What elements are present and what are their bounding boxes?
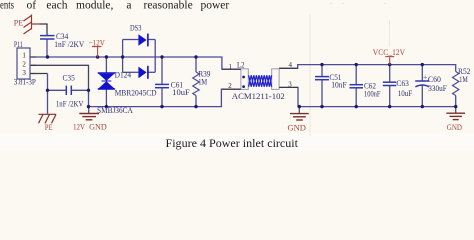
svg-text:PE: PE [14,18,24,27]
svg-text:1: 1 [22,52,26,60]
svg-text:100nF: 100nF [364,90,381,99]
svg-text:.: . [342,0,344,6]
svg-text:4: 4 [289,61,293,69]
svg-text:12V: 12V [73,123,85,132]
svg-text:module,: module, [76,0,113,12]
svg-text:.: . [330,0,332,6]
svg-text:−12V: −12V [89,38,105,47]
svg-text:a: a [126,0,131,12]
svg-text:Figure 4 Power inlet circuit: Figure 4 Power inlet circuit [166,136,299,150]
svg-text:DS3: DS3 [130,24,141,33]
svg-text:1M: 1M [459,75,468,84]
svg-text:GND: GND [447,123,462,132]
svg-text:reasonable: reasonable [144,0,193,12]
svg-text:SMBJ36CA: SMBJ36CA [97,106,133,115]
svg-text:ents: ents [0,0,14,12]
svg-text:2: 2 [22,60,26,68]
svg-text:PE: PE [45,123,53,132]
svg-text:330uF: 330uF [428,84,447,93]
svg-text:GND: GND [89,123,107,132]
svg-text:10uF: 10uF [172,88,190,97]
svg-text:VCC_12V: VCC_12V [373,48,406,57]
svg-text:1nF /2KV: 1nF /2KV [56,99,84,108]
svg-text:1: 1 [229,63,233,71]
svg-text:C63: C63 [396,79,409,88]
svg-text:L2: L2 [237,61,245,70]
svg-text:1nF /2KV: 1nF /2KV [54,40,84,49]
svg-text:power: power [201,0,230,12]
svg-text:3.81-3P: 3.81-3P [14,78,36,87]
svg-text:10nF: 10nF [331,80,347,89]
svg-text:.: . [384,0,386,6]
svg-text:GND: GND [288,123,307,132]
svg-text:+: + [423,72,427,81]
svg-text:each: each [46,0,67,12]
svg-text:of: of [27,0,37,12]
svg-text:1M: 1M [198,78,207,87]
svg-text:3: 3 [22,69,26,77]
svg-text:10uF: 10uF [398,89,413,98]
svg-text:D124: D124 [115,71,132,80]
svg-text:2: 2 [228,82,232,90]
svg-text:MBR2045CD: MBR2045CD [115,89,157,98]
svg-text:ACM1211-102: ACM1211-102 [232,92,285,101]
svg-text:3: 3 [288,81,292,89]
svg-text:P11: P11 [14,40,23,49]
svg-text:C35: C35 [63,74,75,83]
